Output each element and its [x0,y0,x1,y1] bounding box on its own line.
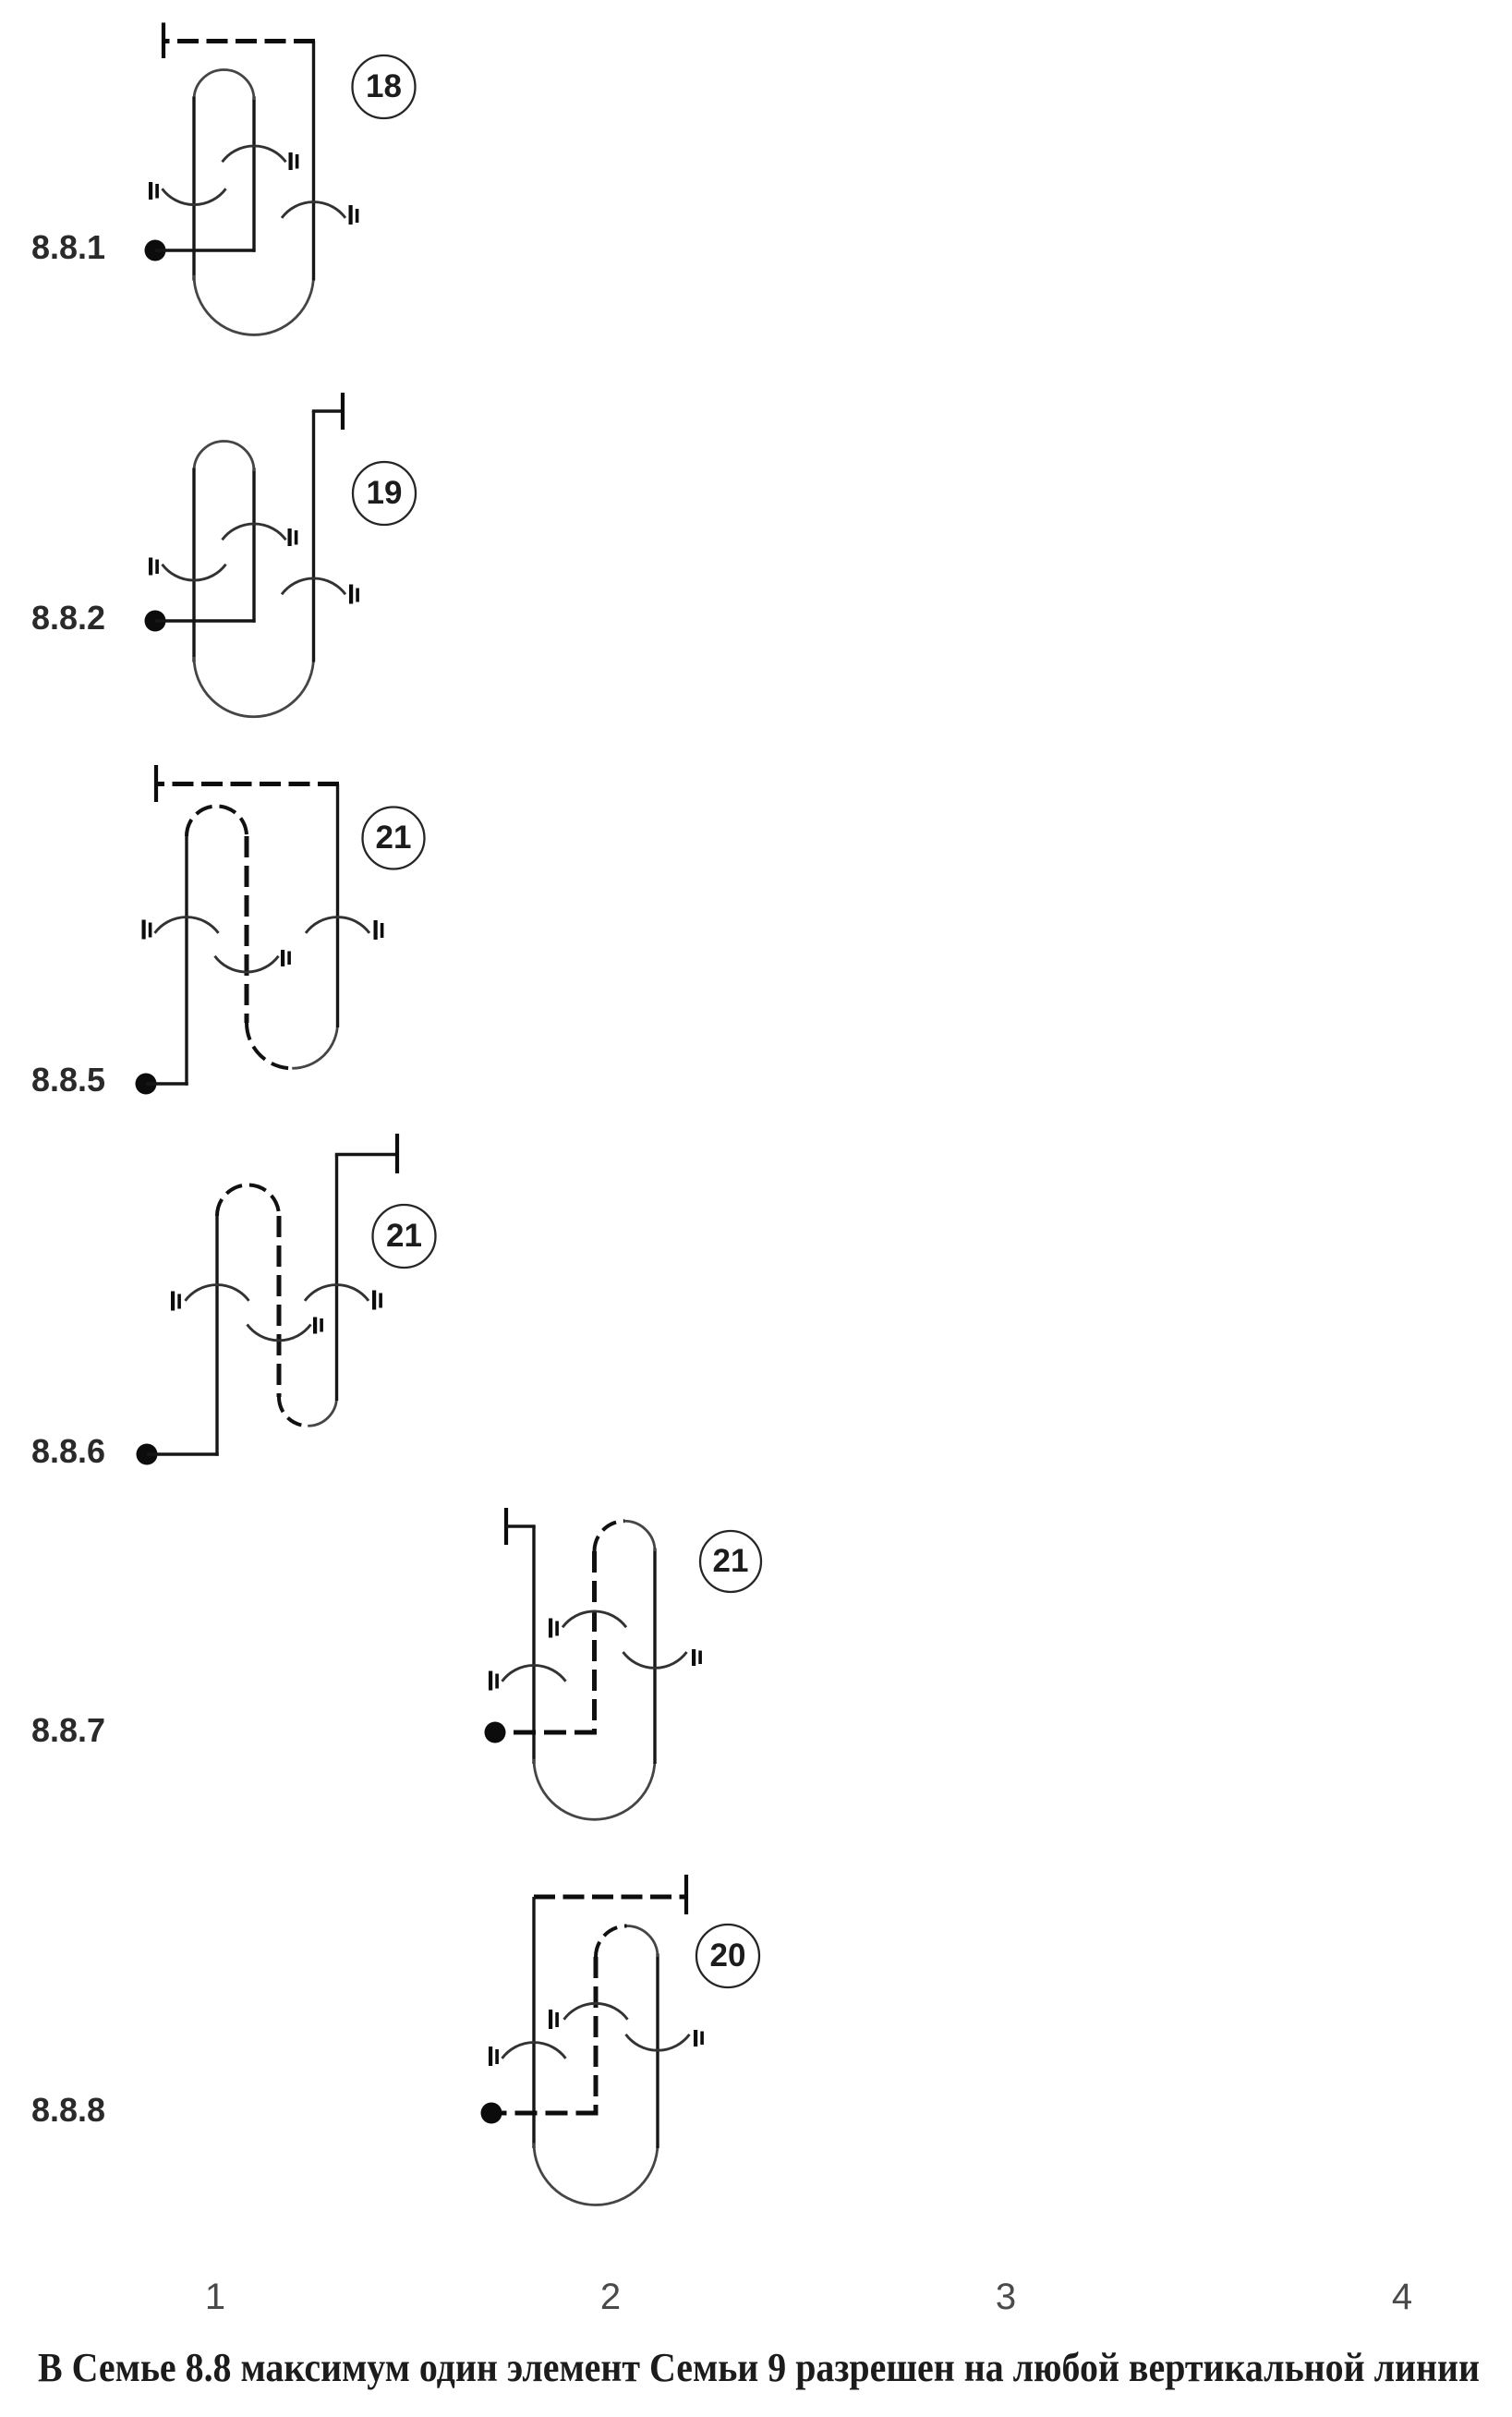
svg-text:8.8.5: 8.8.5 [31,1061,105,1099]
svg-text:21: 21 [713,1543,749,1579]
roll ticks II (inner) 8.8.1 [289,152,293,170]
roll arc on down line 8.8.2 [163,565,226,580]
down line (left vertical) 8.8.2 [192,468,195,662]
svg-text:3: 3 [996,2277,1016,2317]
roll ticks II (center) 8.8.5 [281,950,284,966]
inverted down line (center dashed vertical) 8.8.8 [594,1957,599,2116]
inverted down line (center dashed vertical) 8.8.5 [245,836,249,1023]
down line (left vertical) 8.8.7 [532,1526,535,1764]
roll arc on center dashed line 8.8.8 [564,2003,628,2019]
up line (inner right vertical) 8.8.2 [252,468,255,623]
roll arc on left down line 8.8.7 [502,1665,566,1681]
K-factor circle 19 [353,462,416,525]
FIGURE 8.8.2 [31,393,416,717]
svg-text:2: 2 [600,2277,621,2317]
bottom half-loop arc 8.8.2 [194,657,314,717]
up line (left vertical) 8.8.6 [215,1216,218,1456]
bottom half-loop arc 8.8.1 [194,275,314,335]
start dot 8.8.1 [145,240,166,261]
svg-text:1: 1 [205,2277,225,2317]
roll ticks II (left) 8.8.2 [149,558,152,576]
inverted down line (center dashed vertical) 8.8.7 [592,1551,597,1735]
roll arc on right up line 8.8.5 [306,917,369,933]
svg-text:21: 21 [386,1218,422,1254]
K-factor circle 21 [700,1531,761,1592]
svg-text:20: 20 [710,1937,746,1974]
roll arc on center dashed line 8.8.6 [248,1325,311,1341]
roll ticks II (right) 8.8.5 [374,920,378,940]
FIGURE 8.8.7 [31,1508,761,1819]
up line (right vertical) 8.8.5 [336,784,339,1028]
roll arc on left up line 8.8.5 [155,917,219,933]
roll ticks II (center) 8.8.8 [549,2010,552,2029]
roll arc on right up line 8.8.6 [305,1285,369,1301]
top half-loop arc right half (solid) 8.8.7 [624,1521,655,1551]
FIGURE 8.8.5 [31,765,425,1099]
svg-text:В Семье 8.8 максимум один элем: В Семье 8.8 максимум один элемент Семьи … [38,2345,1480,2390]
top half-loop arc (dashed) 8.8.5 [187,807,247,837]
bottom half-loop arc 8.8.7 [534,1759,655,1820]
K-factor circle 21 [363,808,425,869]
roll arc on center dashed line 8.8.5 [215,956,279,972]
roll ticks II (outer) 8.8.1 [349,205,353,225]
exit tick 8.8.8 [684,1875,688,1914]
exit tick 8.8.6 [395,1134,399,1173]
BOTTOM TEXT [38,2277,1480,2390]
inverted exit dashed line 8.8.8 [491,2111,599,2116]
inverted down line (center dashed vertical) 8.8.6 [277,1216,282,1397]
down line (left vertical) 8.8.8 [532,1897,535,2148]
up line (outer right vertical) 8.8.1 [312,42,315,281]
inverted exit dashed line 8.8.7 [495,1731,597,1735]
roll ticks II (left) 8.8.6 [171,1292,175,1311]
roll arc on outer up line 8.8.2 [282,578,345,594]
roll arc on inner up line 8.8.2 [223,524,286,540]
roll arc on center dashed line 8.8.7 [562,1611,626,1627]
top half-loop arc 8.8.1 [194,70,254,101]
entry line 8.8.5 [146,1082,188,1085]
roll arc on right up line 8.8.7 [623,1652,687,1668]
entry tick 8.8.7 [504,1508,508,1545]
start dot 8.8.2 [145,611,166,632]
exit line 8.8.6 [335,1153,397,1157]
exit dashed line 8.8.5 [156,782,339,786]
svg-text:8.8.6: 8.8.6 [31,1432,105,1470]
down line (left vertical) 8.8.1 [192,97,195,281]
svg-text:21: 21 [376,820,412,856]
roll ticks II (right) 8.8.8 [694,2030,697,2047]
roll ticks II (inner) 8.8.2 [288,528,292,546]
start dot 8.8.7 [485,1722,506,1743]
roll ticks II (left) 8.8.5 [142,920,146,940]
roll ticks II (left) 8.8.8 [489,2047,492,2066]
exit dashed line 8.8.8 [534,1895,686,1900]
entry line 8.8.2 [155,619,256,622]
svg-text:4: 4 [1392,2277,1412,2317]
FIGURE 8.8.8 [31,1875,759,2205]
top half-loop arc left half (dashed) 8.8.7 [595,1521,625,1551]
up line (left vertical) 8.8.5 [185,836,187,1086]
roll ticks II (right) 8.8.7 [692,1649,696,1666]
K-factor circle 20 [696,1925,759,1987]
entry line 8.8.6 [147,1452,219,1455]
roll ticks II (right) 8.8.6 [372,1291,376,1310]
svg-text:8.8.1: 8.8.1 [31,228,105,266]
roll ticks II (left) 8.8.7 [489,1671,492,1691]
roll ticks II (left) 8.8.1 [149,182,152,200]
up line (right vertical) 8.8.7 [653,1549,656,1765]
top half-loop arc (dashed) 8.8.6 [217,1185,279,1217]
up line (inner right vertical) 8.8.1 [252,97,255,252]
up line (right vertical) 8.8.8 [656,1954,659,2149]
roll ticks II (center) 8.8.7 [549,1619,552,1638]
exit dashed line 8.8.1 [163,39,315,43]
top half-loop arc right half (solid) 8.8.8 [627,1926,659,1958]
roll arc on left down line 8.8.8 [502,2043,566,2059]
exit line 8.8.2 [312,409,343,413]
svg-text:19: 19 [367,475,403,511]
entry line 8.8.1 [155,249,256,251]
start dot 8.8.8 [481,2103,502,2124]
up line (right vertical) 8.8.6 [335,1155,338,1402]
roll arc on outer up line 8.8.1 [282,202,345,218]
exit tick 8.8.1 [162,23,165,59]
start dot 8.8.6 [137,1444,158,1465]
svg-text:18: 18 [366,68,402,104]
svg-text:8.8.2: 8.8.2 [31,599,105,637]
bottom half-loop arc right quarter 8.8.6 [308,1397,336,1426]
K-factor circle 18 [353,55,416,118]
K-factor circle 21 [373,1205,436,1268]
up line (outer right vertical) 8.8.2 [312,411,315,662]
roll ticks II (center) 8.8.6 [313,1318,317,1334]
roll ticks II (outer) 8.8.2 [349,585,353,604]
exit tick 8.8.5 [154,765,158,802]
roll arc on left up line 8.8.6 [186,1285,249,1301]
FIGURE 8.8.6 [31,1134,436,1470]
bottom half-loop arc left quarter (dashed) 8.8.6 [279,1397,308,1426]
FIGURE 8.8.1 [31,23,416,335]
svg-text:8.8.7: 8.8.7 [31,1711,105,1749]
bottom half-loop arc right quarter 8.8.5 [292,1023,337,1068]
bottom half-loop arc 8.8.8 [534,2144,658,2205]
top half-loop arc left half (dashed) 8.8.8 [596,1926,627,1958]
svg-text:8.8.8: 8.8.8 [31,2091,105,2129]
top half-loop arc 8.8.2 [194,442,254,472]
exit tick 8.8.2 [341,393,345,430]
start dot 8.8.5 [136,1074,157,1095]
entry line 8.8.7 [506,1524,536,1528]
roll arc on inner up line 8.8.1 [223,146,286,162]
roll arc on right up line 8.8.8 [626,2034,690,2050]
bottom half-loop arc left quarter (dashed) 8.8.5 [247,1023,292,1068]
roll arc on down line 8.8.1 [163,188,226,204]
